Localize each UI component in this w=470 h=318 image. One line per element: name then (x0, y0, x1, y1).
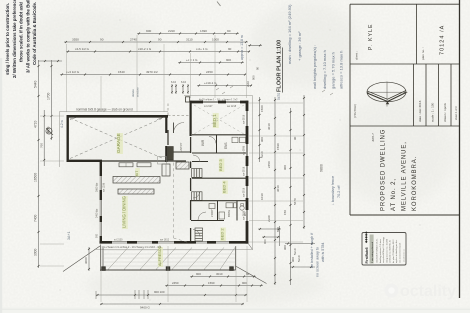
svg-text:90: 90 (256, 66, 260, 70)
svg-text:PROPOSED DWELLING: PROPOSED DWELLING (381, 129, 387, 211)
svg-text:main : dwelling = 164 m² (249.: main : dwelling = 164 m² (249.93) (287, 4, 292, 64)
svg-text:rating assessor no. 101432: rating assessor no. 101432 (385, 238, 388, 263)
svg-text:6.10: 6.10 (171, 80, 177, 84)
svg-text:1390: 1390 (200, 29, 207, 33)
svg-text:(74h/70ml): (74h/70ml) (353, 104, 357, 118)
bed3 label (219, 159, 225, 173)
svg-text:3550: 3550 (72, 38, 79, 42)
robe bed2 striped (192, 192, 203, 201)
svg-text:www.firstrate.vic: www.firstrate.vic (403, 249, 406, 262)
svg-text:5x10: 5x10 (293, 248, 297, 255)
svg-text:90: 90 (246, 272, 250, 276)
alfresco posts (102, 267, 106, 271)
svg-text:900: 900 (283, 165, 287, 170)
svg-text:2450: 2450 (172, 281, 179, 285)
left dimension line inner (51, 60, 53, 140)
small marks above plan (216, 88, 219, 90)
svg-text:sd 2127: sd 2127 (204, 105, 213, 108)
wall bed4 bottom (191, 200, 247, 202)
wir shelves (168, 147, 174, 161)
svg-text:certificate no. 0045721-01: certificate no. 0045721-01 (389, 239, 392, 263)
scan edge bottom (0, 307, 470, 313)
svg-text:L’DRY: L’DRY (210, 209, 214, 217)
svg-text:7400: 7400 (34, 214, 38, 222)
svg-text:c-v’beam 1 G w’dws 2 - 10: c-v’beam 1 G w’dws 2 - 10 c’beam 1 G 2x1… (104, 245, 161, 249)
top dim line 3 (66, 51, 250, 53)
laundry tub (209, 204, 215, 209)
svg-text:↓ boundary fence: ↓ boundary fence (331, 176, 335, 205)
svg-text:3010: 3010 (216, 272, 223, 276)
svg-text:no screen away to: no screen away to (316, 247, 320, 277)
svg-text:900: 900 (260, 137, 264, 142)
svg-text:1700: 1700 (47, 92, 51, 100)
svg-text:ENS: ENS (224, 142, 228, 149)
windows (203, 100, 218, 103)
bath fixtures (226, 203, 233, 208)
svg-text:5x10: 5x10 (297, 255, 301, 262)
svg-text:Code of Australia & BasiCode.: Code of Australia & BasiCode. (32, 2, 37, 65)
svg-text:window: window (136, 86, 140, 97)
svg-text:4970 1/2: 4970 1/2 (146, 70, 158, 74)
bath divider 1 (217, 201, 219, 221)
svg-text:AT No. 2,: AT No. 2, (391, 178, 397, 211)
left dim connector (38, 60, 62, 62)
bath divider 2 (236, 201, 238, 221)
svg-text:2x90: 2x90 (168, 29, 175, 33)
svg-text:3A+1: 3A+1 (67, 232, 71, 241)
svg-text:2/ Written dimensions take pre: 2/ Written dimensions take preference ov… (12, 0, 17, 78)
svg-text:3/ All works to comply with th: 3/ All works to comply with the Building (25, 0, 30, 73)
stamp highlight row (370, 235, 374, 264)
svg-text:900: 900 (96, 233, 99, 238)
svg-text:sheet 1 of 3: sheet 1 of 3 (454, 106, 458, 120)
wall bed3 bottom (192, 177, 247, 179)
living roof dash line (173, 157, 175, 238)
extension lines right (249, 102, 303, 104)
svg-text:LIVING / DINING: LIVING / DINING (122, 196, 127, 228)
stray pen mark top (217, 2, 221, 7)
client/plan divider (416, 4, 418, 64)
svg-text:aw 0918: aw 0918 (243, 166, 246, 176)
svg-text:16500: 16500 (34, 173, 38, 182)
svg-text:nominal 6x9.8 garage — slab: nominal 6x9.8 garage — slab on ground (76, 107, 133, 111)
corner dim cluster (258, 228, 281, 230)
svg-text:4710: 4710 (34, 120, 38, 128)
svg-text:aw 0918: aw 0918 (243, 114, 246, 124)
bottom dim line 4 (100, 303, 244, 305)
svg-text:1590: 1590 (276, 143, 280, 150)
entry door arc (174, 123, 185, 134)
top dim line 5 (60, 74, 246, 76)
wall bed1 bottom (192, 134, 247, 136)
svg-text:2450: 2450 (206, 70, 213, 74)
ldry label (220, 228, 226, 242)
svg-text:alfresco = 13.8 max h: alfresco = 13.8 max h (339, 51, 344, 89)
alfresco boards (104, 249, 235, 251)
bottom dim line 3 overall (96, 294, 247, 296)
svg-text:2460 bjo: 2460 bjo (96, 208, 99, 218)
house right wall (246, 101, 249, 244)
svg-text:those scaled. If in doubt ask!: those scaled. If in doubt ask! (19, 1, 24, 62)
svg-text:drawn : npmb: drawn : npmb (443, 103, 447, 122)
top dim line 2b stub (248, 44, 262, 46)
svg-text:2740: 2740 (130, 38, 137, 42)
svg-text:rated with FirstRate5 v5.2.1: rated with FirstRate5 v5.2.1 (376, 238, 379, 263)
svg-text:KIT: KIT (135, 171, 139, 176)
svg-text:90: 90 (227, 29, 231, 33)
garage left wall (66, 115, 68, 162)
svg-text:for plan 70124/A dec 2013: for plan 70124/A dec 2013 (392, 239, 395, 263)
title block divider 1 (350, 63, 459, 65)
svg-text:aw 1218: aw 1218 (227, 105, 237, 108)
svg-text:P. KYLE: P. KYLE (368, 23, 374, 50)
svg-text:FirstRate5: FirstRate5 (365, 247, 369, 263)
svg-text:5670: 5670 (293, 198, 297, 205)
top dim line 4 (178, 62, 244, 64)
extension lines left (40, 115, 64, 117)
svg-text:ENTRY: ENTRY (179, 142, 183, 152)
bottom tick pairs (134, 290, 136, 299)
svg-text:delete: delete (131, 89, 135, 97)
svg-text:aw 0606: aw 0606 (243, 210, 246, 220)
svg-text:c10-2 1 G: c10-2 1 G (138, 47, 152, 51)
svg-text:c-0+ 1 G: c-0+ 1 G (196, 47, 208, 51)
top dim line 6 (197, 85, 252, 87)
svg-text:5440: 5440 (34, 80, 38, 88)
wc toilet (240, 206, 244, 210)
corridor wall (190, 137, 192, 153)
bed1 label (213, 113, 219, 128)
wall hall south partial (192, 161, 208, 163)
title block outer top (350, 3, 459, 5)
svg-text:scale : 1 : 100: scale : 1 : 100 (431, 102, 435, 122)
living dining label (122, 196, 128, 229)
svg-text:2660 bjo: 2660 bjo (96, 182, 99, 192)
svg-text:70.2 off: 70.2 off (337, 184, 341, 198)
svg-text:dwelling achieves 5.0 stars: dwelling achieves 5.0 stars (379, 239, 382, 263)
svg-text:3110: 3110 (186, 38, 193, 42)
porch post (186, 97, 190, 102)
left dimension line outer (38, 60, 40, 268)
svg-text:BED 3: BED 3 (218, 159, 223, 171)
svg-text:JM/5-7: JM/5-7 (371, 133, 375, 142)
svg-text:FLOOR PLAN 1:100: FLOOR PLAN 1:100 (277, 40, 283, 92)
svg-text:wall heights pergolas(s) :: wall heights pergolas(s) : (312, 45, 317, 89)
kitchen island (118, 189, 154, 194)
svg-text:with is 5784: with is 5784 (321, 243, 325, 262)
svg-text:aw 1812: aw 1812 (160, 239, 170, 242)
right dim col 4 (overall) (303, 95, 305, 229)
svg-text:MELVILLE AVENUE,: MELVILLE AVENUE, (402, 141, 408, 211)
svg-text:octality: octality (400, 283, 456, 300)
middle cell sub dividers (413, 64, 415, 126)
bed1 diag dashes (194, 105, 244, 134)
svg-text:complies BCA pt 3.12 energy: complies BCA pt 3.12 energy (382, 237, 385, 263)
svg-text:5470: 5470 (277, 93, 281, 100)
svg-text:see assessment report: see assessment report (398, 242, 401, 263)
right dim col 2 (274, 97, 276, 285)
wir ens divider (216, 135, 218, 153)
bed2 label (222, 181, 228, 195)
roof hip right (236, 266, 267, 284)
svg-text:900: 900 (196, 272, 201, 276)
living left wall (100, 160, 102, 244)
watermark icon (385, 284, 399, 298)
svg-text:date : dec 2013: date : dec 2013 (418, 100, 422, 122)
svg-text:900: 900 (283, 245, 287, 250)
svg-text:GARAGE: GARAGE (116, 133, 121, 153)
svg-text:garage = 5.70 max h: garage = 5.70 max h (331, 52, 336, 89)
svg-text:aw 0906: aw 0906 (243, 145, 246, 155)
garage sectional door dashes (70, 118, 163, 159)
garage right wall (165, 115, 167, 133)
ens fixtures (232, 137, 238, 143)
svg-text:aw 0918: aw 0918 (243, 187, 246, 197)
title block left edge (349, 4, 351, 215)
page border right (459, 0, 461, 298)
svg-text:BED 2: BED 2 (220, 228, 225, 240)
garage door leaf marks (70, 118, 76, 120)
extension lines bottom (100, 246, 102, 302)
svg-text:applies to dwelling as doc.: applies to dwelling as doc. (395, 239, 398, 263)
svg-text:1590: 1590 (208, 281, 215, 285)
eaves outline (60, 111, 169, 113)
svg-text:client :: client : (355, 51, 359, 60)
top dim line 1 (137, 33, 239, 35)
svg-text:WIR: WIR (201, 139, 205, 146)
svg-text:BED 4: BED 4 (222, 181, 227, 193)
svg-text:5 star rating achieved: 5 star rating achieved (371, 241, 374, 263)
stamp box (362, 233, 406, 266)
wall bed2 top partial (191, 220, 224, 222)
robe bed3 striped (192, 169, 203, 178)
svg-text:900: 900 (242, 281, 247, 285)
right bottom dims (285, 243, 315, 245)
top dim tick cluster (171, 84, 173, 94)
alfresco hatch diagonals (108, 248, 128, 270)
svg-text:760: 760 (40, 143, 44, 148)
scan edge left (0, 58, 2, 313)
svg-text:be installed + rough if: be installed + rough if (310, 232, 314, 268)
svg-text:+ garage : 36 m²: + garage : 36 m² (297, 31, 302, 61)
wing left wall (190, 101, 192, 136)
house top wall (bed wing) (190, 101, 248, 104)
svg-text:sd 2130: sd 2130 (114, 239, 123, 242)
svg-text:plan no. :: plan no. : (421, 47, 425, 60)
roof hip left (63, 246, 100, 272)
svg-text:2450: 2450 (267, 161, 271, 168)
svg-text:9800: 9800 (320, 164, 324, 172)
svg-text:1030: 1030 (260, 193, 264, 200)
svg-text:90: 90 (100, 38, 104, 42)
svg-text:4-2 w: 4-2 w (60, 120, 64, 128)
pantry boxes (162, 164, 170, 176)
svg-text:BATH: BATH (227, 210, 231, 217)
svg-text:1000: 1000 (212, 38, 219, 42)
bottom dim line 2 (165, 285, 263, 287)
svg-text:90: 90 (228, 47, 232, 51)
svg-text:3000: 3000 (34, 248, 38, 256)
svg-text:150: 150 (283, 210, 287, 215)
svg-text:9400 G: 9400 G (140, 306, 151, 310)
svg-text:3010: 3010 (267, 123, 271, 130)
garage bottom wall (67, 160, 103, 162)
svg-text:aw 1206: aw 1206 (103, 182, 106, 192)
porch slab dashed edge (168, 115, 190, 117)
bench on wall (119, 163, 133, 167)
svg-text:6.10: 6.10 (181, 80, 187, 84)
section marker A (46, 128, 52, 134)
svg-text:c4-5 1/2 G: c4-5 1/2 G (75, 47, 90, 51)
svg-text:900: 900 (291, 257, 295, 262)
title block bottom edge (350, 214, 459, 216)
garage label (117, 133, 123, 154)
svg-text:3000: 3000 (84, 257, 88, 264)
svg-text:2x90: 2x90 (267, 215, 271, 222)
extension lines top (66, 44, 68, 112)
bottom dim line 1 (190, 276, 256, 278)
garage height dim line (43, 110, 45, 166)
svg-text:dwelling = 7.10 max h: dwelling = 7.10 max h (322, 50, 327, 89)
right dim col 1 (259, 97, 261, 162)
svg-text:approx = 13.8 m: approx = 13.8 m (240, 35, 244, 60)
svg-text:900: 900 (146, 29, 151, 33)
right dim col 3 (290, 108, 292, 285)
svg-text:KOROKOMBRA.: KOROKOMBRA. (412, 156, 418, 211)
title block divider 2 (350, 125, 459, 127)
svg-text:5x10: 5x10 (260, 151, 264, 158)
svg-text:70124 /A: 70124 /A (440, 25, 446, 55)
entry small walls (167, 130, 169, 145)
svg-text:90: 90 (158, 38, 162, 42)
svg-text:1500: 1500 (260, 105, 264, 112)
top dim line 2 (64, 41, 248, 43)
svg-text:900: 900 (263, 239, 267, 244)
kitchen bench (113, 177, 160, 184)
alfresco outline (102, 246, 104, 270)
alfresco label (158, 247, 163, 267)
door arcs interior (193, 155, 200, 162)
svg-text:c+3 1/2 G: c+3 1/2 G (66, 70, 80, 74)
house bottom wall (100, 241, 249, 244)
svg-text:sting / levels prior to constr: sting / levels prior to construction. (5, 3, 10, 75)
bottom left vertical dim (88, 247, 90, 271)
specks (120, 20, 121, 21)
north symbol (367, 82, 406, 102)
svg-text:3010: 3010 (276, 185, 280, 192)
kit label (135, 168, 140, 177)
svg-text:900: 900 (226, 58, 231, 62)
wall hall north (192, 152, 247, 154)
fridge dashed box (158, 157, 167, 165)
svg-text:+c = 1 G: +c = 1 G (186, 58, 198, 62)
garage top wall (67, 115, 169, 118)
svg-text:1540: 1540 (118, 70, 125, 74)
svg-text:900 100: 900 100 (154, 290, 165, 294)
linen striped (195, 228, 203, 241)
svg-text:900: 900 (252, 75, 256, 80)
svg-text:90: 90 (293, 136, 297, 140)
